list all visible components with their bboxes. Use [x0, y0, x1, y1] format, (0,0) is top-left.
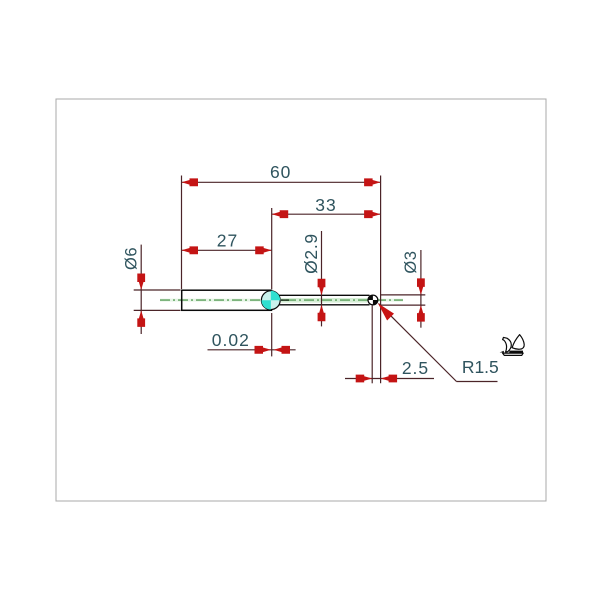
dimension 0.02 [208, 313, 296, 356]
tip ball [368, 295, 378, 305]
svg-text:60: 60 [270, 162, 291, 182]
thin shaft outline [279, 295, 370, 305]
svg-text:Ø6: Ø6 [123, 247, 141, 270]
logo bird [500, 335, 525, 356]
svg-text:33: 33 [315, 195, 336, 215]
dimension 2.5 [345, 306, 434, 384]
leader R1.5 [378, 303, 499, 381]
dimension 33 [272, 195, 381, 289]
svg-text:Ø3: Ø3 [402, 251, 420, 274]
dimension dia 2.9 [301, 231, 326, 326]
dimension 60 [182, 162, 381, 383]
dimension dia 3 [381, 250, 425, 328]
svg-text:Ø2.9: Ø2.9 [301, 233, 321, 274]
ball nose (turquoise) [261, 291, 280, 310]
svg-text:R1.5: R1.5 [462, 357, 499, 377]
shank outline [182, 290, 272, 310]
dimension 27 [182, 230, 272, 254]
svg-text:27: 27 [217, 230, 238, 250]
centerline [160, 298, 403, 303]
svg-text:0.02: 0.02 [212, 330, 250, 350]
dimension dia 6 [123, 245, 181, 334]
svg-text:2.5: 2.5 [402, 358, 429, 378]
